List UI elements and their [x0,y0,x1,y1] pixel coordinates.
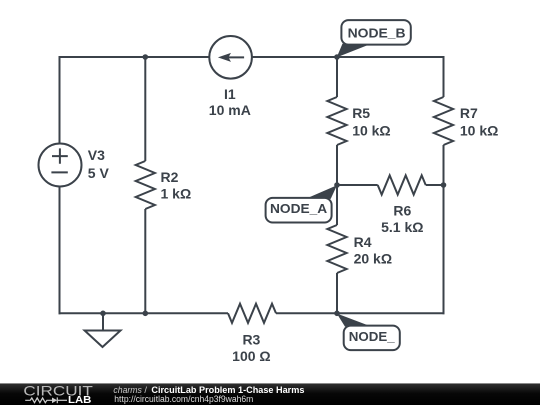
node label box NODE_B [341,20,410,44]
current source I1 [209,36,252,79]
voltage source V3 [39,144,82,187]
svg-text:NODE_A: NODE_A [270,201,328,216]
svg-text:R2: R2 [161,169,179,185]
junction dot R6 right [441,182,447,188]
svg-text:NODE_B: NODE_B [348,26,406,41]
resistor R4 [327,225,346,273]
current source I1 arrowhead [218,53,231,62]
svg-text:10 kΩ: 10 kΩ [460,123,498,139]
svg-text:R6: R6 [393,202,411,218]
svg-text:R5: R5 [352,105,370,121]
wire top right [252,56,444,58]
wire top left [60,56,210,58]
pointer wedge NODE_A [306,185,338,199]
junction dot ground [100,311,106,317]
node label box NODE_ [344,326,400,351]
pointer wedge NODE_ [337,314,372,327]
junction dot R2 top [143,54,149,60]
resistor R7 [434,97,453,145]
junction dot NODE_B [334,54,340,60]
svg-text:20 kΩ: 20 kΩ [354,250,392,266]
svg-text:NODE_: NODE_ [349,329,396,344]
svg-text:R3: R3 [242,332,260,348]
svg-text:10 kΩ: 10 kΩ [352,123,390,139]
pointer wedge NODE_B [337,44,369,58]
svg-text:I1: I1 [224,86,236,102]
wire right rail upper [443,56,445,97]
svg-text:10 mA: 10 mA [209,102,251,118]
wire left rail upper [59,56,61,144]
svg-text:5.1 kΩ: 5.1 kΩ [381,219,423,235]
resistor R3 [228,304,276,323]
wire bottom left [59,312,229,314]
wire R6 right lead [426,184,444,186]
wire bottom mid [276,312,337,314]
ground [102,313,104,330]
wire right rail lower [443,145,445,314]
node label box NODE_A [266,198,332,223]
junction dot R2 bottom [143,311,149,317]
wire R2 rail lower [144,209,146,313]
wire middle rail upper [336,56,338,97]
logo zigzag diode [25,397,67,403]
junction dot NODE_A [334,182,340,188]
junction dot NODE_ [334,311,340,317]
wire R6 left lead [337,184,378,186]
resistor R6 [378,175,426,194]
resistor R5 [327,97,346,145]
resistor R2 [136,161,155,209]
svg-text:R7: R7 [460,105,478,121]
svg-text:R4: R4 [354,234,372,250]
svg-text:1 kΩ: 1 kΩ [161,185,192,201]
svg-text:V3: V3 [88,147,105,163]
footer bar [0,383,540,405]
svg-text:100 Ω: 100 Ω [232,348,270,364]
wire R2 rail upper [144,56,146,161]
svg-text:5 V: 5 V [88,165,110,181]
svg-text:http://circuitlab.com/cnh4p3f9: http://circuitlab.com/cnh4p3f9wah6m [114,394,253,404]
wire middle rail lower [336,273,338,313]
wire left rail lower [59,187,61,315]
svg-text:LAB: LAB [68,395,91,405]
wire bottom right [337,312,445,314]
wire middle rail mid [336,145,338,225]
